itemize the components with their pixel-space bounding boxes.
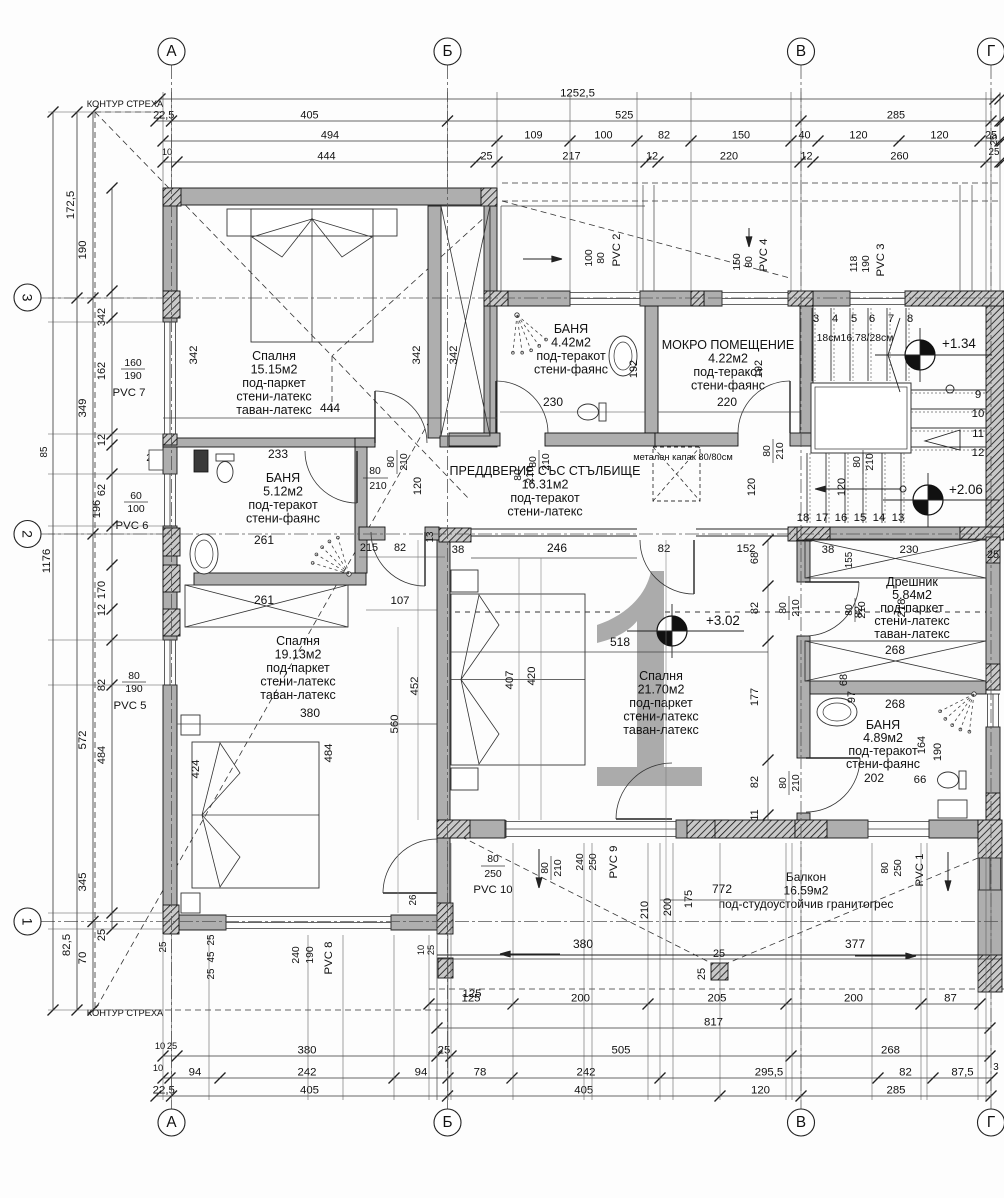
svg-text:172,5: 172,5 — [65, 191, 77, 220]
svg-text:3: 3 — [20, 294, 36, 302]
svg-text:10: 10 — [972, 408, 985, 420]
svg-text:14: 14 — [873, 512, 886, 524]
svg-text:505: 505 — [611, 1045, 630, 1057]
svg-text:под-теракот: под-теракот — [248, 498, 318, 512]
svg-text:12: 12 — [96, 434, 108, 446]
svg-text:12: 12 — [96, 604, 108, 616]
svg-text:80: 80 — [369, 466, 381, 477]
svg-text:261: 261 — [254, 593, 274, 607]
svg-text:+1.34: +1.34 — [942, 336, 976, 351]
sink bath 4.89 — [817, 698, 857, 726]
svg-text:210: 210 — [639, 901, 651, 919]
svg-text:1: 1 — [20, 918, 36, 926]
svg-text:40: 40 — [798, 130, 810, 142]
svg-text:218: 218 — [896, 598, 908, 617]
roof contour dashes — [94, 112, 96, 1010]
bed bedroom 21.70 — [451, 570, 478, 592]
svg-text:230: 230 — [899, 544, 918, 556]
svg-text:66: 66 — [914, 774, 927, 786]
svg-text:268: 268 — [881, 1045, 900, 1057]
svg-text:Спалня: Спалня — [276, 634, 320, 648]
svg-text:424: 424 — [190, 759, 202, 778]
svg-text:405: 405 — [300, 1085, 319, 1097]
svg-text:PVC 3: PVC 3 — [875, 244, 887, 277]
svg-text:25: 25 — [438, 1045, 451, 1057]
svg-text:518: 518 — [610, 635, 630, 649]
svg-text:В: В — [796, 43, 806, 60]
svg-text:5: 5 — [851, 313, 857, 325]
svg-text:217: 217 — [562, 151, 580, 163]
svg-text:таван-латекс: таван-латекс — [623, 723, 698, 737]
svg-text:под-студоустойчив гранитогрес: под-студоустойчив гранитогрес — [719, 897, 894, 911]
svg-text:190: 190 — [125, 684, 143, 695]
svg-text:Дрешник: Дрешник — [886, 575, 938, 589]
svg-text:стени-фаянс: стени-фаянс — [534, 363, 608, 377]
svg-text:19.13м2: 19.13м2 — [275, 648, 322, 662]
svg-text:342: 342 — [96, 308, 108, 326]
svg-text:80: 80 — [487, 854, 499, 865]
svg-text:16: 16 — [835, 512, 848, 524]
svg-text:192: 192 — [753, 360, 765, 378]
svg-text:205: 205 — [707, 993, 726, 1005]
svg-text:268: 268 — [885, 643, 905, 657]
svg-text:452: 452 — [409, 676, 421, 695]
door bath4.42 — [495, 381, 497, 433]
svg-text:11: 11 — [749, 809, 761, 820]
bed bedroom 1 — [227, 209, 397, 236]
walls: hatched columns — [194, 450, 208, 472]
svg-text:метален капак 80/80см: метален капак 80/80см — [633, 452, 733, 462]
svg-text:420: 420 — [526, 666, 538, 685]
svg-text:45: 45 — [206, 951, 217, 962]
svg-text:стени-латекс: стени-латекс — [623, 710, 698, 724]
svg-text:120: 120 — [930, 130, 948, 142]
svg-text:25: 25 — [158, 941, 169, 952]
svg-text:82,5: 82,5 — [61, 934, 73, 956]
svg-text:210: 210 — [775, 442, 786, 460]
shower bath 4.42 — [511, 313, 547, 354]
toilet bath 4.42 — [578, 403, 607, 421]
svg-text:150: 150 — [732, 253, 743, 271]
door bedroom21 balcony — [616, 818, 672, 820]
shower bath 4.89 — [939, 692, 976, 733]
svg-text:78: 78 — [474, 1067, 487, 1079]
svg-text:164: 164 — [916, 736, 928, 754]
level mark +1.34 — [875, 328, 992, 382]
svg-text:107: 107 — [390, 595, 409, 607]
svg-text:25: 25 — [167, 1041, 177, 1051]
svg-text:+2.06: +2.06 — [949, 482, 983, 497]
svg-text:9: 9 — [975, 389, 981, 401]
svg-text:150: 150 — [732, 130, 750, 142]
svg-text:стени-фаянс: стени-фаянс — [691, 379, 765, 393]
svg-text:250: 250 — [893, 859, 904, 877]
svg-text:268: 268 — [885, 697, 905, 711]
svg-text:10: 10 — [162, 147, 172, 157]
svg-text:+3.02: +3.02 — [706, 613, 740, 628]
svg-text:285: 285 — [887, 110, 905, 122]
shower bath 5.12 — [311, 536, 351, 576]
svg-text:175: 175 — [683, 890, 695, 908]
металлен капак hatch square — [633, 447, 733, 501]
svg-text:Г: Г — [987, 1114, 995, 1131]
svg-text:10: 10 — [416, 945, 426, 955]
svg-text:210: 210 — [791, 774, 802, 792]
svg-text:97: 97 — [846, 691, 858, 703]
svg-text:380: 380 — [297, 1045, 316, 1057]
svg-text:260: 260 — [890, 151, 908, 163]
svg-text:233: 233 — [268, 447, 288, 461]
svg-text:PVC 8: PVC 8 — [323, 942, 335, 975]
svg-text:12: 12 — [972, 447, 985, 459]
svg-text:242: 242 — [576, 1067, 595, 1079]
svg-text:190: 190 — [861, 255, 872, 273]
bed bedroom 19.13 — [181, 715, 200, 735]
svg-text:под-паркет: под-паркет — [242, 376, 306, 390]
svg-text:4.42м2: 4.42м2 — [551, 336, 591, 350]
top dimension rows — [160, 98, 995, 100]
svg-text:3: 3 — [993, 1062, 999, 1073]
svg-text:572: 572 — [77, 730, 89, 749]
svg-text:484: 484 — [323, 743, 335, 762]
svg-text:230: 230 — [543, 395, 563, 409]
staircase — [797, 308, 986, 524]
svg-text:82: 82 — [749, 602, 761, 614]
svg-text:200: 200 — [571, 993, 590, 1005]
svg-text:4.22м2: 4.22м2 — [708, 352, 748, 366]
svg-text:349: 349 — [77, 398, 89, 417]
svg-text:11: 11 — [972, 428, 984, 440]
svg-text:80: 80 — [778, 777, 789, 789]
axis grid lines — [171, 65, 173, 1109]
svg-text:94: 94 — [189, 1067, 202, 1079]
svg-text:25: 25 — [987, 549, 999, 561]
svg-text:100: 100 — [584, 249, 595, 267]
svg-text:210: 210 — [553, 859, 564, 877]
svg-text:25: 25 — [96, 929, 108, 941]
svg-text:стени-латекс: стени-латекс — [507, 505, 582, 519]
svg-text:444: 444 — [320, 401, 340, 415]
wardrobe дрешник bottom — [805, 641, 986, 681]
svg-text:13: 13 — [425, 531, 436, 542]
svg-text:62: 62 — [96, 484, 108, 496]
svg-text:240: 240 — [291, 946, 302, 964]
svg-text:стени-латекс: стени-латекс — [236, 390, 311, 404]
svg-text:190: 190 — [124, 371, 142, 382]
svg-text:210: 210 — [399, 453, 410, 471]
svg-text:12: 12 — [646, 151, 658, 163]
svg-text:15.15м2: 15.15м2 — [251, 363, 298, 377]
svg-text:А: А — [166, 1114, 177, 1131]
svg-text:80: 80 — [762, 445, 773, 457]
sink bath 4.42 — [609, 336, 637, 376]
svg-text:118: 118 — [849, 256, 860, 273]
windows (thin lines in wall gaps) — [164, 322, 166, 434]
svg-text:3: 3 — [813, 313, 819, 325]
svg-text:444: 444 — [317, 151, 335, 163]
balcony arrows/labels — [500, 953, 560, 955]
svg-text:17: 17 — [816, 512, 829, 524]
svg-text:202: 202 — [864, 771, 884, 785]
svg-text:484: 484 — [96, 746, 108, 764]
svg-text:21.70м2: 21.70м2 — [638, 683, 685, 697]
walls: grey fills — [163, 188, 497, 205]
svg-text:220: 220 — [717, 395, 737, 409]
door bath5.12 — [356, 451, 358, 503]
svg-text:109: 109 — [524, 130, 542, 142]
svg-text:таван-латекс: таван-латекс — [260, 688, 335, 702]
svg-text:В: В — [796, 1114, 806, 1131]
svg-text:345: 345 — [77, 872, 89, 891]
door bath4.89 — [806, 757, 860, 759]
svg-text:Спалня: Спалня — [252, 349, 296, 363]
svg-text:80: 80 — [744, 256, 755, 268]
left dimension columns — [52, 112, 54, 1010]
svg-text:162: 162 — [96, 362, 108, 380]
svg-text:38: 38 — [452, 544, 465, 556]
svg-text:80: 80 — [128, 671, 140, 682]
svg-text:525: 525 — [615, 110, 633, 122]
svg-text:210: 210 — [791, 599, 802, 617]
svg-text:2: 2 — [20, 530, 36, 538]
svg-text:10: 10 — [153, 1063, 163, 1073]
svg-text:38: 38 — [822, 544, 835, 556]
svg-text:80: 80 — [844, 604, 855, 616]
svg-text:190: 190 — [77, 240, 89, 259]
svg-text:18см16.78/28см: 18см16.78/28см — [817, 333, 894, 344]
svg-text:80: 80 — [528, 456, 539, 468]
sink bath 5.12 — [190, 534, 218, 574]
toilet bath 4.89 — [938, 771, 967, 789]
wardrobe дрешник top — [805, 539, 986, 578]
svg-text:PVC 4: PVC 4 — [758, 239, 770, 272]
svg-text:PVC 1: PVC 1 — [914, 854, 926, 887]
svg-text:200: 200 — [662, 898, 674, 916]
svg-text:82: 82 — [658, 543, 671, 555]
svg-text:200: 200 — [844, 993, 863, 1005]
svg-text:125: 125 — [462, 988, 481, 1000]
svg-text:177: 177 — [749, 688, 761, 706]
svg-text:405: 405 — [300, 110, 318, 122]
svg-text:120: 120 — [412, 477, 424, 495]
svg-text:под-теракот: под-теракот — [848, 744, 918, 758]
wardrobe top-left tall — [441, 206, 490, 436]
svg-text:стени-фаянс: стени-фаянс — [246, 512, 320, 526]
svg-text:15: 15 — [854, 512, 867, 524]
level mark +3.02 — [627, 604, 744, 658]
svg-text:342: 342 — [411, 345, 423, 364]
svg-text:25: 25 — [480, 151, 492, 163]
svg-text:210: 210 — [541, 453, 552, 471]
svg-text:25: 25 — [206, 968, 217, 979]
svg-text:82: 82 — [899, 1067, 912, 1079]
toilet bath 5.12 — [216, 454, 234, 483]
svg-text:242: 242 — [297, 1067, 316, 1079]
svg-text:PVC 5: PVC 5 — [114, 700, 147, 712]
svg-text:PVC 2: PVC 2 — [611, 234, 623, 267]
svg-text:под-теракот: под-теракот — [510, 491, 580, 505]
svg-text:БАНЯ: БАНЯ — [554, 322, 588, 336]
svg-text:А: А — [166, 43, 177, 60]
door bedroom21 top — [693, 540, 695, 594]
svg-text:8: 8 — [907, 313, 913, 325]
svg-text:210: 210 — [369, 481, 387, 492]
axis circles — [158, 38, 185, 65]
svg-text:25: 25 — [426, 945, 436, 955]
wardrobe bedroom 19.13 — [185, 585, 348, 627]
door corridor small — [424, 532, 426, 586]
svg-text:100: 100 — [127, 504, 145, 515]
svg-text:стени-латекс: стени-латекс — [874, 614, 949, 628]
svg-text:стени-фаянс: стени-фаянс — [846, 757, 920, 771]
svg-text:25: 25 — [713, 948, 725, 960]
level mark +2.06 — [883, 473, 1000, 527]
svg-text:под-теракот: под-теракот — [536, 349, 606, 363]
svg-text:160: 160 — [124, 358, 142, 369]
svg-text:380: 380 — [300, 706, 320, 720]
svg-text:215: 215 — [360, 542, 378, 554]
svg-text:под-паркет: под-паркет — [880, 601, 944, 615]
svg-text:Спалня: Спалня — [639, 669, 683, 683]
svg-text:80: 80 — [596, 252, 607, 264]
svg-text:Б: Б — [442, 43, 452, 60]
svg-text:120: 120 — [746, 478, 758, 496]
svg-text:285: 285 — [886, 1085, 905, 1097]
svg-text:246: 246 — [547, 541, 567, 555]
svg-text:85: 85 — [39, 446, 50, 457]
svg-text:18: 18 — [797, 512, 810, 524]
svg-text:PVC 10: PVC 10 — [473, 884, 512, 896]
svg-text:5.12м2: 5.12м2 — [263, 485, 303, 499]
svg-text:342: 342 — [448, 345, 460, 364]
svg-text:PVC 7: PVC 7 — [113, 387, 146, 399]
svg-text:1176: 1176 — [41, 549, 53, 574]
svg-text:250: 250 — [484, 869, 502, 880]
svg-text:190: 190 — [305, 946, 316, 964]
svg-text:170: 170 — [96, 581, 108, 599]
svg-text:220: 220 — [720, 151, 738, 163]
svg-text:80: 80 — [513, 469, 524, 481]
svg-text:377: 377 — [845, 937, 865, 951]
svg-text:60: 60 — [130, 491, 142, 502]
hatched wall bands — [905, 291, 1004, 306]
svg-text:25: 25 — [206, 934, 217, 945]
svg-text:6: 6 — [869, 313, 875, 325]
svg-text:560: 560 — [389, 714, 401, 733]
svg-text:25: 25 — [989, 134, 1000, 145]
svg-text:190: 190 — [932, 743, 944, 761]
svg-text:БАНЯ: БАНЯ — [866, 718, 900, 732]
svg-text:26: 26 — [408, 894, 419, 905]
door мокро — [789, 381, 791, 433]
svg-text:94: 94 — [415, 1067, 428, 1079]
svg-text:10: 10 — [155, 1041, 165, 1051]
svg-text:25: 25 — [989, 147, 1000, 158]
svg-text:407: 407 — [504, 670, 516, 689]
svg-text:22,5: 22,5 — [153, 110, 174, 122]
svg-text:БАНЯ: БАНЯ — [266, 471, 300, 485]
svg-text:70: 70 — [77, 952, 89, 965]
door bedroom19 — [383, 892, 437, 894]
svg-text:87: 87 — [944, 993, 957, 1005]
svg-text:стени-латекс: стени-латекс — [260, 675, 335, 689]
svg-text:87,5: 87,5 — [951, 1067, 973, 1079]
svg-text:68: 68 — [838, 674, 850, 686]
svg-text:494: 494 — [321, 130, 339, 142]
svg-text:380: 380 — [573, 937, 593, 951]
door дрешник — [805, 581, 859, 583]
svg-text:80: 80 — [778, 602, 789, 614]
svg-text:80: 80 — [386, 456, 397, 468]
big grey unit number 1 — [597, 571, 664, 767]
svg-text:100: 100 — [594, 130, 612, 142]
svg-text:342: 342 — [188, 345, 200, 364]
door bedroom1 — [374, 391, 376, 443]
svg-text:4.89м2: 4.89м2 — [863, 731, 903, 745]
svg-text:261: 261 — [254, 533, 274, 547]
svg-text:295,5: 295,5 — [755, 1067, 784, 1079]
svg-text:МОКРО ПОМЕЩЕНИЕ: МОКРО ПОМЕЩЕНИЕ — [662, 338, 795, 352]
svg-text:120: 120 — [751, 1085, 770, 1097]
svg-text:155: 155 — [844, 551, 855, 568]
svg-text:таван-латекс: таван-латекс — [874, 627, 949, 641]
svg-text:120: 120 — [836, 478, 848, 496]
svg-text:250: 250 — [588, 853, 599, 871]
svg-text:80: 80 — [540, 862, 551, 874]
svg-text:под-паркет: под-паркет — [266, 661, 330, 675]
svg-text:82: 82 — [749, 776, 761, 788]
svg-text:240: 240 — [575, 853, 586, 871]
svg-text:под-паркет: под-паркет — [629, 696, 693, 710]
svg-text:120: 120 — [849, 130, 867, 142]
svg-text:25: 25 — [696, 968, 708, 980]
svg-text:82: 82 — [394, 542, 406, 554]
svg-text:210: 210 — [525, 466, 536, 484]
svg-text:16.59м2: 16.59м2 — [784, 884, 829, 898]
svg-text:80: 80 — [880, 862, 891, 874]
svg-text:Б: Б — [442, 1114, 452, 1131]
svg-text:192: 192 — [628, 360, 640, 378]
svg-text:1252,5: 1252,5 — [560, 88, 595, 100]
svg-text:таван-латекс: таван-латекс — [236, 403, 311, 417]
svg-text:12: 12 — [800, 151, 812, 163]
svg-text:13: 13 — [892, 512, 905, 524]
svg-text:Г: Г — [987, 43, 995, 60]
bottom dimension rows — [429, 1003, 980, 1005]
svg-text:68: 68 — [749, 552, 761, 564]
svg-text:80: 80 — [852, 456, 863, 468]
svg-text:210: 210 — [857, 601, 868, 619]
svg-text:196: 196 — [91, 500, 103, 518]
svg-text:82: 82 — [658, 130, 670, 142]
right edge dimension bits — [999, 95, 1001, 165]
svg-text:PVC 9: PVC 9 — [608, 846, 620, 879]
svg-text:КОНТУР СТРЕХА: КОНТУР СТРЕХА — [87, 1008, 164, 1018]
svg-text:772: 772 — [712, 882, 732, 896]
svg-text:7: 7 — [888, 313, 894, 325]
svg-text:210: 210 — [865, 453, 876, 471]
svg-text:4: 4 — [832, 313, 838, 325]
